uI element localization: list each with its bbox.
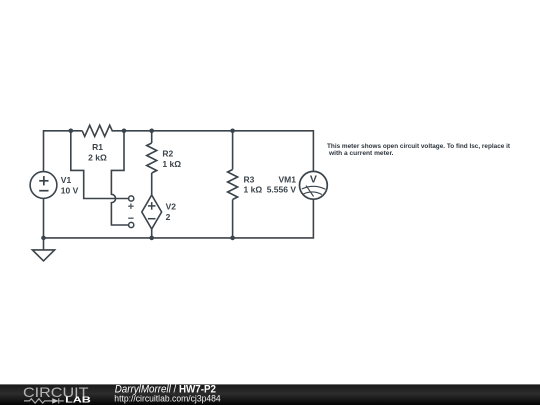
svg-text:1 kΩ: 1 kΩ [244, 185, 263, 195]
svg-text:with a current meter.: with a current meter. [328, 150, 394, 157]
svg-text:V2: V2 [166, 202, 177, 212]
svg-text:http://circuitlab.com/cj3p484: http://circuitlab.com/cj3p484 [114, 394, 221, 405]
svg-text:R2: R2 [162, 149, 173, 159]
svg-text:2: 2 [166, 212, 171, 222]
svg-text:R1: R1 [92, 142, 103, 152]
svg-text:10 V: 10 V [61, 185, 79, 195]
svg-text:VM1: VM1 [279, 174, 297, 184]
svg-text:2 kΩ: 2 kΩ [88, 152, 107, 162]
svg-text:R3: R3 [244, 174, 255, 184]
svg-text:V1: V1 [61, 175, 72, 185]
svg-text:V: V [310, 173, 317, 185]
svg-text:5.556 V: 5.556 V [267, 185, 297, 195]
svg-text:1 kΩ: 1 kΩ [162, 159, 181, 169]
svg-text:LAB: LAB [65, 396, 91, 405]
